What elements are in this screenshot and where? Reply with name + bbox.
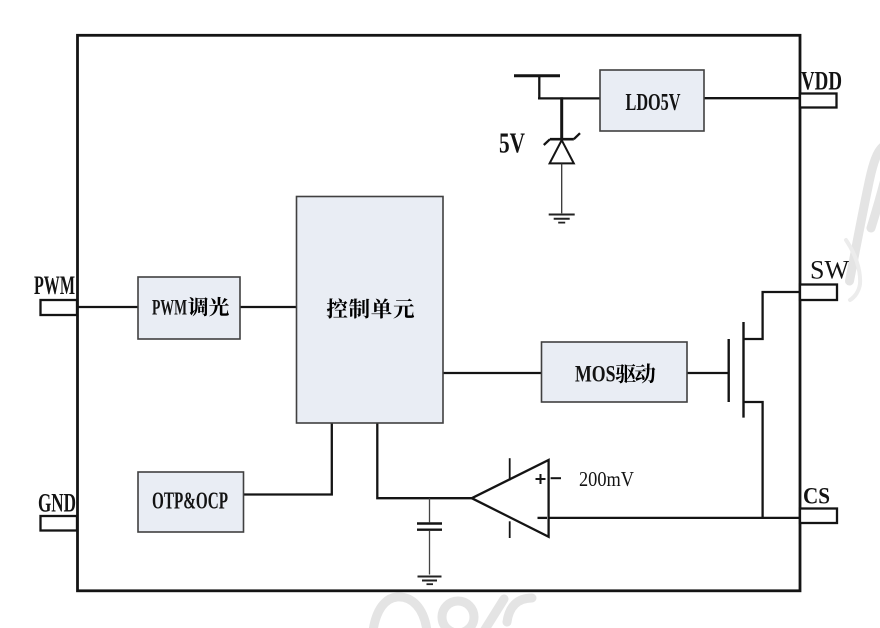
block MOS driver (MOS驱动)	[542, 342, 688, 402]
block control unit (控制单元)	[297, 197, 444, 424]
pin SW	[800, 285, 837, 301]
watermark swoosh right	[846, 146, 880, 300]
block OTP&OCP	[138, 472, 244, 532]
svg-text:SW: SW	[810, 256, 849, 285]
transistor Q1 NMOS	[729, 292, 800, 518]
svg-text:MOS: MOS	[575, 362, 616, 387]
wire control unit to comparator output	[377, 423, 472, 498]
pin CS	[800, 509, 837, 524]
svg-text:PWM: PWM	[152, 295, 187, 320]
supply rail stub	[538, 76, 540, 99]
wire LDO5V to VDD pin	[704, 97, 800, 99]
comparator minus input	[538, 517, 548, 519]
comparator U2	[472, 458, 549, 538]
zener diode D1 5V	[544, 133, 580, 163]
ground (zener)	[549, 215, 575, 223]
pin GND	[41, 516, 78, 531]
wire OTP&OCP to control unit	[244, 423, 332, 495]
wire control unit to MOS driver	[443, 372, 542, 374]
IC boundary box	[78, 35, 801, 591]
svg-text:PWM: PWM	[34, 270, 75, 300]
wire zener anode to ground	[561, 163, 563, 213]
pin PWM	[41, 300, 78, 315]
pin VDD	[800, 94, 837, 108]
wire node to zener cathode	[560, 97, 563, 139]
wire supply rail to LDO5V	[538, 97, 600, 99]
svg-text:OTP&OCP: OTP&OCP	[152, 489, 228, 515]
comparator plus input	[536, 474, 562, 484]
block LDO5V	[600, 70, 704, 131]
svg-text:5V: 5V	[499, 128, 525, 160]
svg-text:LDO5V: LDO5V	[626, 89, 681, 116]
watermark swoosh bottom	[373, 597, 532, 628]
wire PWM dimming to control unit	[240, 306, 297, 308]
wire MOS driver to gate	[687, 372, 729, 374]
capacitor C1	[417, 498, 442, 574]
svg-text:200mV: 200mV	[579, 467, 634, 491]
svg-text:GND: GND	[38, 488, 76, 518]
block PWM dimming (PWM调光)	[138, 277, 240, 339]
wire CS line	[549, 517, 800, 519]
supply rail bar	[514, 74, 560, 77]
svg-text:VDD: VDD	[801, 67, 842, 96]
ground (capacitor)	[418, 577, 442, 585]
svg-text:CS: CS	[803, 484, 830, 510]
wire PWM pin to PWM dimming block	[77, 306, 138, 308]
